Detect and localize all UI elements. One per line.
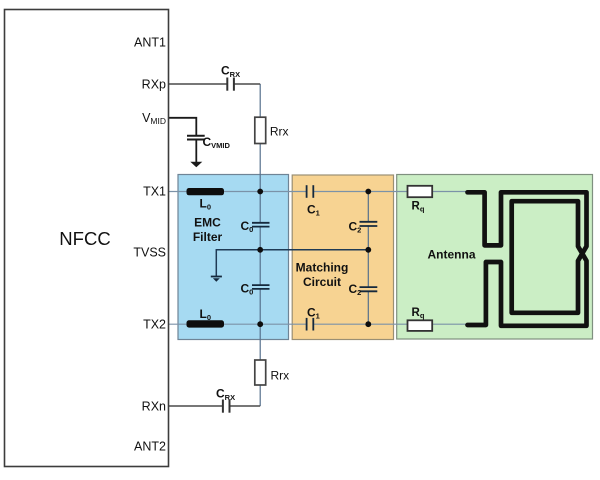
capacitor CVMID	[187, 136, 205, 162]
ground under CVMID	[190, 162, 202, 168]
wire RX vertical bus	[259, 84, 261, 406]
svg-text:Circuit: Circuit	[303, 275, 341, 289]
svg-text:CRX: CRX	[221, 63, 240, 79]
ground in EMC filter	[211, 277, 222, 282]
capacitor C1 bottom	[307, 318, 314, 331]
node dot TX1-C0	[257, 189, 263, 195]
wire TX2 net	[169, 323, 468, 325]
svg-text:Rrx: Rrx	[270, 125, 289, 139]
node dot TX2-C0	[257, 321, 263, 327]
svg-text:Rrx: Rrx	[271, 369, 290, 383]
capacitor C2 top	[360, 222, 378, 226]
wire VMID	[169, 118, 197, 136]
antenna coil trace	[468, 192, 587, 325]
resistor Rrx bottom	[255, 360, 266, 385]
capacitor CRX bottom	[223, 399, 230, 413]
matching circuit box	[292, 175, 393, 340]
svg-text:Antenna: Antenna	[428, 247, 476, 261]
resistor Rrx top	[255, 117, 266, 143]
capacitor CRX top	[227, 77, 234, 91]
wire middle TVSS line	[216, 250, 368, 276]
svg-text:Matching: Matching	[296, 261, 349, 275]
wire RXp	[169, 83, 261, 85]
capacitor C0 bottom	[252, 285, 270, 289]
inductor L0 bottom	[187, 320, 225, 327]
wire C2 vertical	[367, 192, 369, 325]
capacitor C2 bottom	[360, 287, 378, 291]
capacitor C0 top	[252, 223, 270, 227]
node dot TX1-C2	[365, 189, 371, 195]
wire TX1 net	[169, 191, 468, 193]
NFCC chip U1	[5, 10, 169, 467]
EMC filter box	[178, 175, 289, 340]
svg-text:TX1: TX1	[143, 185, 166, 199]
capacitor C1 top	[307, 185, 314, 198]
svg-text:NFCC: NFCC	[59, 228, 110, 249]
node dot TVSS-C2	[365, 247, 371, 253]
antenna box	[397, 175, 593, 340]
svg-text:EMC: EMC	[194, 216, 221, 230]
svg-text:Filter: Filter	[193, 230, 223, 244]
svg-text:ANT2: ANT2	[134, 439, 166, 453]
svg-text:CRX: CRX	[216, 386, 235, 402]
svg-text:RXn: RXn	[142, 399, 166, 413]
svg-text:TX2: TX2	[143, 317, 166, 331]
resistor Rq bottom	[408, 320, 433, 331]
svg-text:CVMID: CVMID	[203, 135, 231, 150]
svg-text:ANT1: ANT1	[134, 36, 166, 50]
resistor Rq top	[408, 186, 433, 197]
node dot TX2-C2	[365, 321, 371, 327]
inductor L0 top	[187, 188, 225, 195]
svg-text:TVSS: TVSS	[133, 245, 166, 259]
svg-text:RXp: RXp	[142, 77, 166, 91]
node dot TVSS-C0	[257, 247, 263, 253]
wire RXn	[169, 405, 261, 407]
